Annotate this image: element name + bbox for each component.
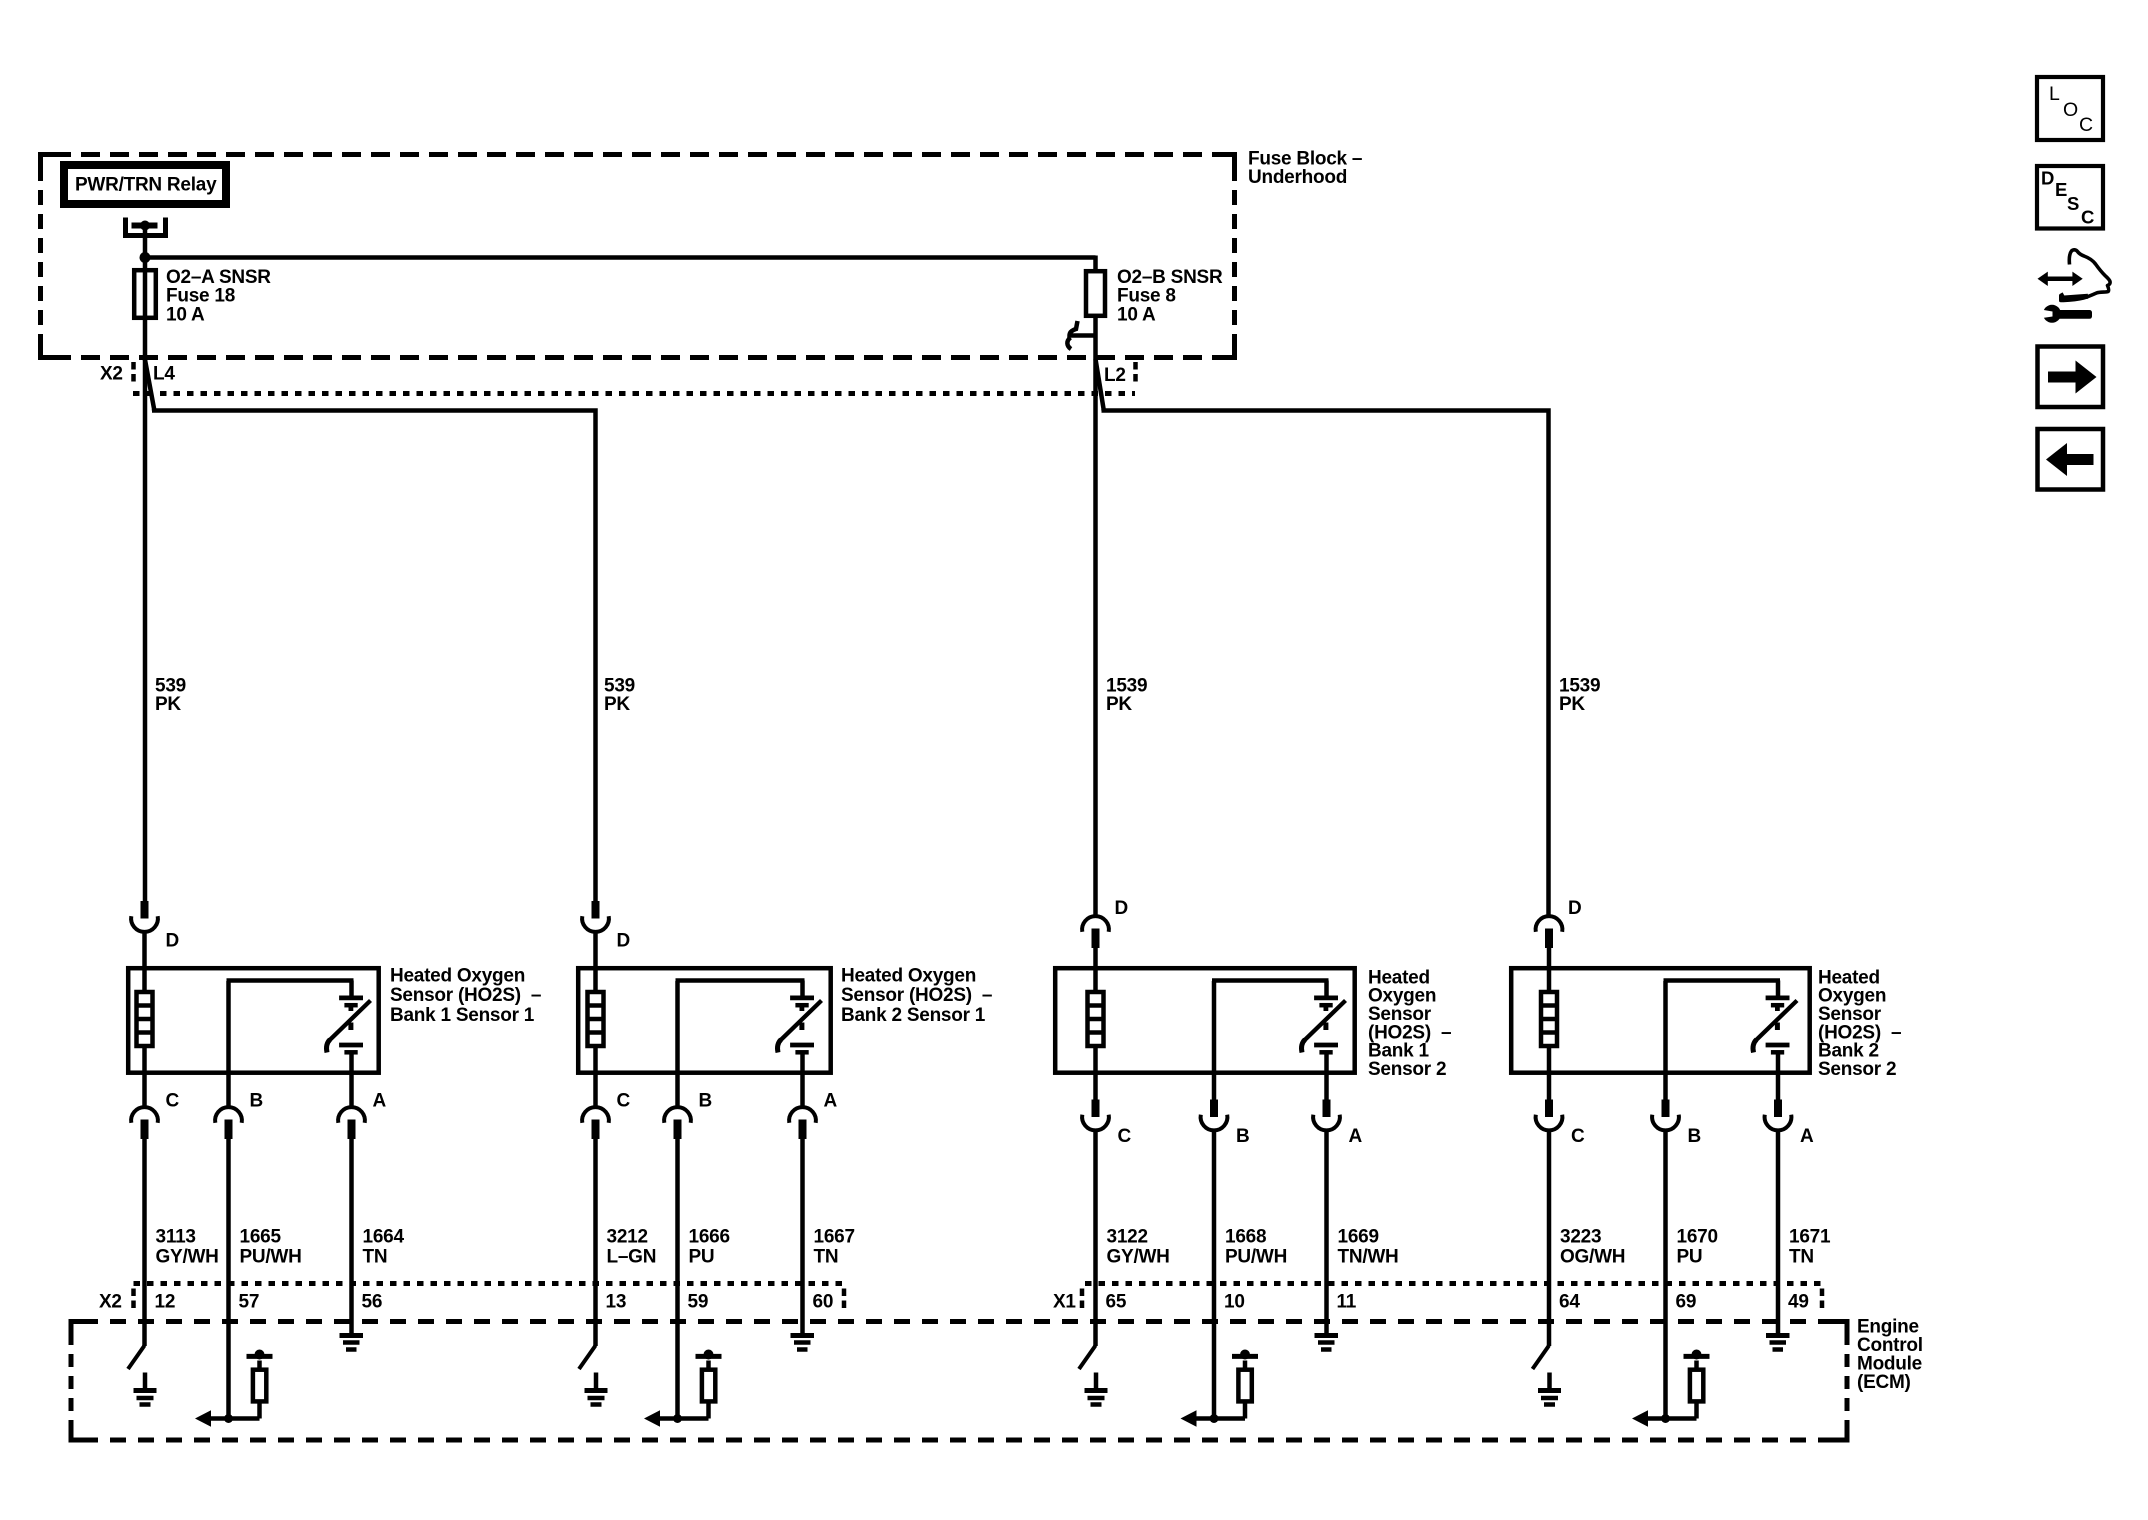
svg-text:59: 59 [688,1291,709,1312]
svg-text:PU: PU [1677,1246,1703,1267]
svg-text:10 A: 10 A [1117,304,1156,325]
svg-text:64: 64 [1559,1291,1580,1312]
svg-text:65: 65 [1106,1291,1127,1312]
svg-text:69: 69 [1676,1291,1697,1312]
svg-text:PK: PK [1559,694,1585,715]
svg-text:L2: L2 [1104,365,1126,386]
svg-text:1668: 1668 [1225,1226,1266,1247]
svg-text:C: C [617,1090,631,1111]
svg-text:B: B [1688,1126,1701,1147]
svg-text:D: D [166,930,179,951]
svg-text:L4: L4 [153,363,175,384]
svg-text:A: A [1800,1126,1814,1147]
svg-text:A: A [373,1090,387,1111]
svg-text:10 A: 10 A [166,304,205,325]
svg-text:E: E [2055,179,2067,200]
svg-text:PK: PK [604,694,630,715]
svg-text:B: B [250,1090,263,1111]
svg-text:A: A [824,1090,838,1111]
svg-text:C: C [2081,207,2094,228]
svg-text:TN: TN [1789,1246,1814,1267]
svg-text:57: 57 [239,1291,260,1312]
svg-text:3122: 3122 [1107,1226,1148,1247]
svg-text:X1: X1 [1053,1291,1076,1312]
svg-text:3212: 3212 [607,1226,648,1247]
svg-text:L–GN: L–GN [607,1246,657,1267]
svg-text:PU: PU [689,1246,715,1267]
svg-text:3113: 3113 [156,1226,196,1247]
svg-text:X2: X2 [100,363,123,384]
svg-text:B: B [699,1090,712,1111]
svg-text:PK: PK [1106,694,1132,715]
svg-text:TN: TN [363,1246,388,1267]
svg-text:PK: PK [155,694,181,715]
svg-text:Underhood: Underhood [1248,167,1347,188]
svg-text:TN/WH: TN/WH [1338,1246,1399,1267]
svg-text:56: 56 [362,1291,383,1312]
svg-text:(ECM): (ECM) [1857,1372,1911,1393]
svg-text:1665: 1665 [240,1226,282,1247]
svg-text:X2: X2 [99,1291,122,1312]
svg-text:C: C [2079,114,2093,136]
svg-text:OG/WH: OG/WH [1560,1246,1625,1267]
svg-text:13: 13 [606,1291,627,1312]
svg-text:Heated Oxygen: Heated Oxygen [841,965,976,986]
svg-text:60: 60 [813,1291,834,1312]
svg-text:Sensor 2: Sensor 2 [1368,1059,1446,1080]
svg-text:1671: 1671 [1789,1226,1831,1247]
svg-text:Heated Oxygen: Heated Oxygen [390,965,525,986]
svg-text:1670: 1670 [1677,1226,1718,1247]
svg-text:12: 12 [155,1291,176,1312]
svg-text:Sensor (HO2S) –: Sensor (HO2S) – [841,985,992,1006]
svg-text:Sensor (HO2S) –: Sensor (HO2S) – [390,985,541,1006]
svg-text:TN: TN [814,1246,839,1267]
svg-text:3223: 3223 [1560,1226,1601,1247]
svg-text:C: C [166,1090,180,1111]
svg-text:D: D [1568,898,1581,919]
svg-text:D: D [617,930,630,951]
svg-text:D: D [1115,898,1128,919]
svg-text:PU/WH: PU/WH [1225,1246,1287,1267]
svg-text:Sensor 2: Sensor 2 [1818,1059,1896,1080]
svg-text:O: O [2063,99,2078,121]
svg-text:GY/WH: GY/WH [156,1246,219,1267]
svg-text:C: C [1118,1126,1132,1147]
svg-text:GY/WH: GY/WH [1107,1246,1170,1267]
svg-text:1666: 1666 [689,1226,730,1247]
svg-text:1664: 1664 [363,1226,405,1247]
svg-text:L: L [2049,83,2060,105]
svg-text:1667: 1667 [814,1226,855,1247]
svg-text:Bank 2 Sensor 1: Bank 2 Sensor 1 [841,1005,986,1026]
svg-text:49: 49 [1788,1291,1809,1312]
svg-text:Bank 1 Sensor 1: Bank 1 Sensor 1 [390,1005,535,1026]
svg-text:B: B [1236,1126,1249,1147]
svg-text:PWR/TRN Relay: PWR/TRN Relay [75,174,217,195]
svg-text:A: A [1349,1126,1363,1147]
svg-text:PU/WH: PU/WH [240,1246,302,1267]
svg-text:1669: 1669 [1338,1226,1379,1247]
svg-text:10: 10 [1224,1291,1245,1312]
svg-text:11: 11 [1337,1291,1357,1312]
svg-text:S: S [2067,193,2079,214]
svg-text:C: C [1571,1126,1585,1147]
svg-text:D: D [2041,168,2054,189]
